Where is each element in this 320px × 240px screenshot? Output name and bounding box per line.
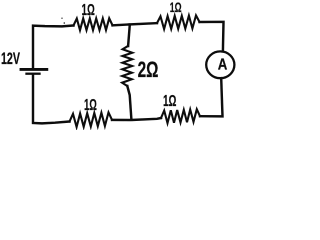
svg-text:1Ω: 1Ω bbox=[82, 2, 95, 19]
wire bottom-middle with node junction to 2-ohm branch bbox=[112, 118, 161, 120]
svg-text:12V: 12V bbox=[1, 50, 20, 68]
scan speck above top wire bbox=[64, 22, 66, 24]
battery B1 long plate (positive) bbox=[21, 68, 47, 71]
svg-text:2Ω: 2Ω bbox=[138, 57, 159, 82]
ammeter U1 circle bbox=[206, 51, 234, 78]
scan speck near top wire bbox=[61, 18, 62, 19]
svg-text:1Ω: 1Ω bbox=[84, 97, 97, 114]
svg-text:A: A bbox=[218, 56, 228, 73]
resistor RM 2ohm (middle vertical) bbox=[122, 46, 132, 86]
wire bottom-left corner to battery negative bbox=[33, 75, 70, 123]
resistor R4 1ohm (bottom right) bbox=[161, 109, 200, 123]
wire top-left: battery positive to resistor R1 bbox=[33, 26, 74, 69]
wire top-right corner down to ammeter bbox=[200, 22, 224, 52]
wire ammeter bottom to bottom-right corner bbox=[200, 78, 223, 116]
battery B1 short plate (negative) bbox=[27, 73, 40, 75]
svg-text:1Ω: 1Ω bbox=[170, 0, 182, 15]
resistor R1 1ohm (top left) bbox=[74, 18, 113, 30]
wire middle branch lower segment bbox=[127, 86, 131, 120]
wire top-middle with node junction to 2-ohm branch bbox=[113, 23, 158, 25]
svg-text:1Ω: 1Ω bbox=[163, 93, 177, 110]
resistor R2 1ohm (top right) bbox=[157, 15, 200, 29]
wire middle branch upper segment bbox=[128, 25, 130, 46]
resistor R3 1ohm (bottom left) bbox=[70, 112, 113, 127]
